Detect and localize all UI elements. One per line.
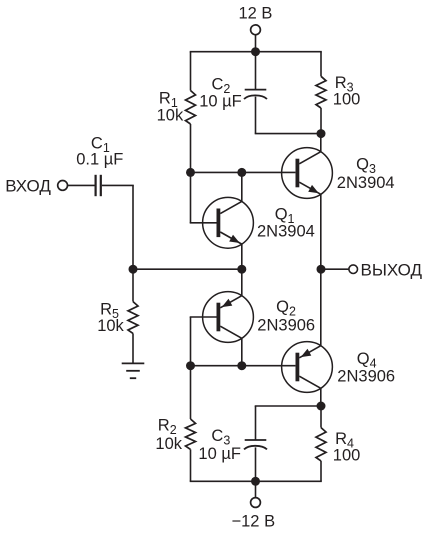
svg-text:10 µF: 10 µF — [198, 445, 241, 463]
svg-text:2N3904: 2N3904 — [337, 174, 395, 192]
svg-text:2N3904: 2N3904 — [257, 223, 315, 241]
svg-text:10k: 10k — [157, 107, 184, 125]
svg-text:12 В: 12 В — [239, 4, 273, 22]
svg-text:2N3906: 2N3906 — [337, 368, 395, 386]
svg-text:10k: 10k — [155, 435, 182, 453]
svg-text:−12 В: −12 В — [232, 513, 276, 531]
svg-text:10k: 10k — [97, 317, 124, 335]
svg-text:10 µF: 10 µF — [199, 93, 242, 111]
svg-text:100: 100 — [333, 447, 361, 465]
svg-text:100: 100 — [333, 91, 361, 109]
svg-text:ВЫХОД: ВЫХОД — [361, 261, 423, 280]
svg-text:ВХОД: ВХОД — [5, 176, 51, 195]
svg-text:2N3906: 2N3906 — [257, 317, 315, 335]
svg-text:Q2: Q2 — [276, 298, 296, 319]
svg-text:0.1 µF: 0.1 µF — [76, 150, 123, 168]
